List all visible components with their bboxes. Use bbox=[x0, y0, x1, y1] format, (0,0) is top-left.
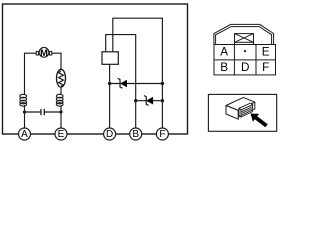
wire: capacitor left lead bbox=[25, 111, 42, 113]
wire: right coil to terminal E bbox=[60, 105, 62, 128]
pin table dot bbox=[244, 50, 247, 53]
connector icon socket bbox=[239, 103, 253, 117]
zener diode D1 bbox=[118, 78, 127, 88]
motor M1 body bbox=[39, 47, 49, 57]
pin table grid bbox=[214, 45, 276, 75]
junction dot left (A node) bbox=[23, 110, 26, 113]
svg-text:A: A bbox=[220, 46, 228, 59]
connector icon 3D body bbox=[226, 97, 255, 119]
junction dot D2 right bbox=[161, 99, 164, 102]
schematic enclosure border bbox=[3, 4, 188, 134]
svg-text:A: A bbox=[21, 129, 28, 140]
capacitor C1 plates bbox=[41, 109, 44, 115]
connector icon frame bbox=[208, 94, 276, 131]
svg-text:B: B bbox=[132, 129, 139, 140]
wire: left leg from terminal A up to coil bbox=[24, 105, 26, 128]
junction dot right (E node) bbox=[59, 110, 62, 113]
terminal B bbox=[130, 128, 142, 140]
terminal A bbox=[19, 128, 31, 140]
terminal F bbox=[156, 128, 168, 140]
svg-text:D: D bbox=[106, 129, 113, 140]
svg-text:E: E bbox=[262, 46, 270, 59]
junction dot D1 right bbox=[161, 82, 164, 85]
connector icon arrow bbox=[251, 114, 268, 128]
connector housing outline bbox=[214, 24, 274, 44]
motor M1 right brush bbox=[49, 51, 51, 55]
junction dot D1 left bbox=[108, 82, 111, 85]
inductor L2 bbox=[56, 94, 63, 106]
svg-text:B: B bbox=[220, 61, 228, 74]
svg-text:F: F bbox=[262, 61, 269, 74]
wire: resistor bottom to right coil bbox=[60, 88, 62, 95]
terminal D bbox=[104, 128, 116, 140]
wire: box right terminal up and over to node above F bbox=[113, 18, 163, 128]
resistor R1 (in ellipse) bbox=[57, 69, 66, 87]
svg-text:E: E bbox=[58, 129, 65, 140]
wire: box bottom terminal down to terminal D bbox=[109, 64, 111, 128]
zener diode D2 bbox=[144, 96, 153, 106]
wire: left leg coil to top corner and right to motor bbox=[25, 53, 37, 94]
wire: diode D1 branch bbox=[110, 83, 163, 85]
connector housing inner rim bbox=[216, 27, 272, 45]
wire: diode D2 branch bbox=[136, 100, 163, 102]
wire: capacitor right lead bbox=[44, 111, 61, 113]
motor M1 left brush bbox=[36, 51, 38, 55]
control box U1 bbox=[102, 52, 118, 65]
svg-text:F: F bbox=[159, 129, 165, 140]
terminal E bbox=[55, 128, 67, 140]
connector latch (crossed box) bbox=[235, 34, 254, 45]
wire: motor right brush to right leg corner, down to resistor bbox=[52, 53, 61, 69]
junction dot D2 left bbox=[134, 99, 137, 102]
inductor L1 bbox=[20, 94, 27, 106]
svg-text:D: D bbox=[241, 61, 249, 74]
svg-text:M: M bbox=[40, 47, 48, 58]
wire: box left terminal up and over to node above B bbox=[106, 35, 136, 129]
